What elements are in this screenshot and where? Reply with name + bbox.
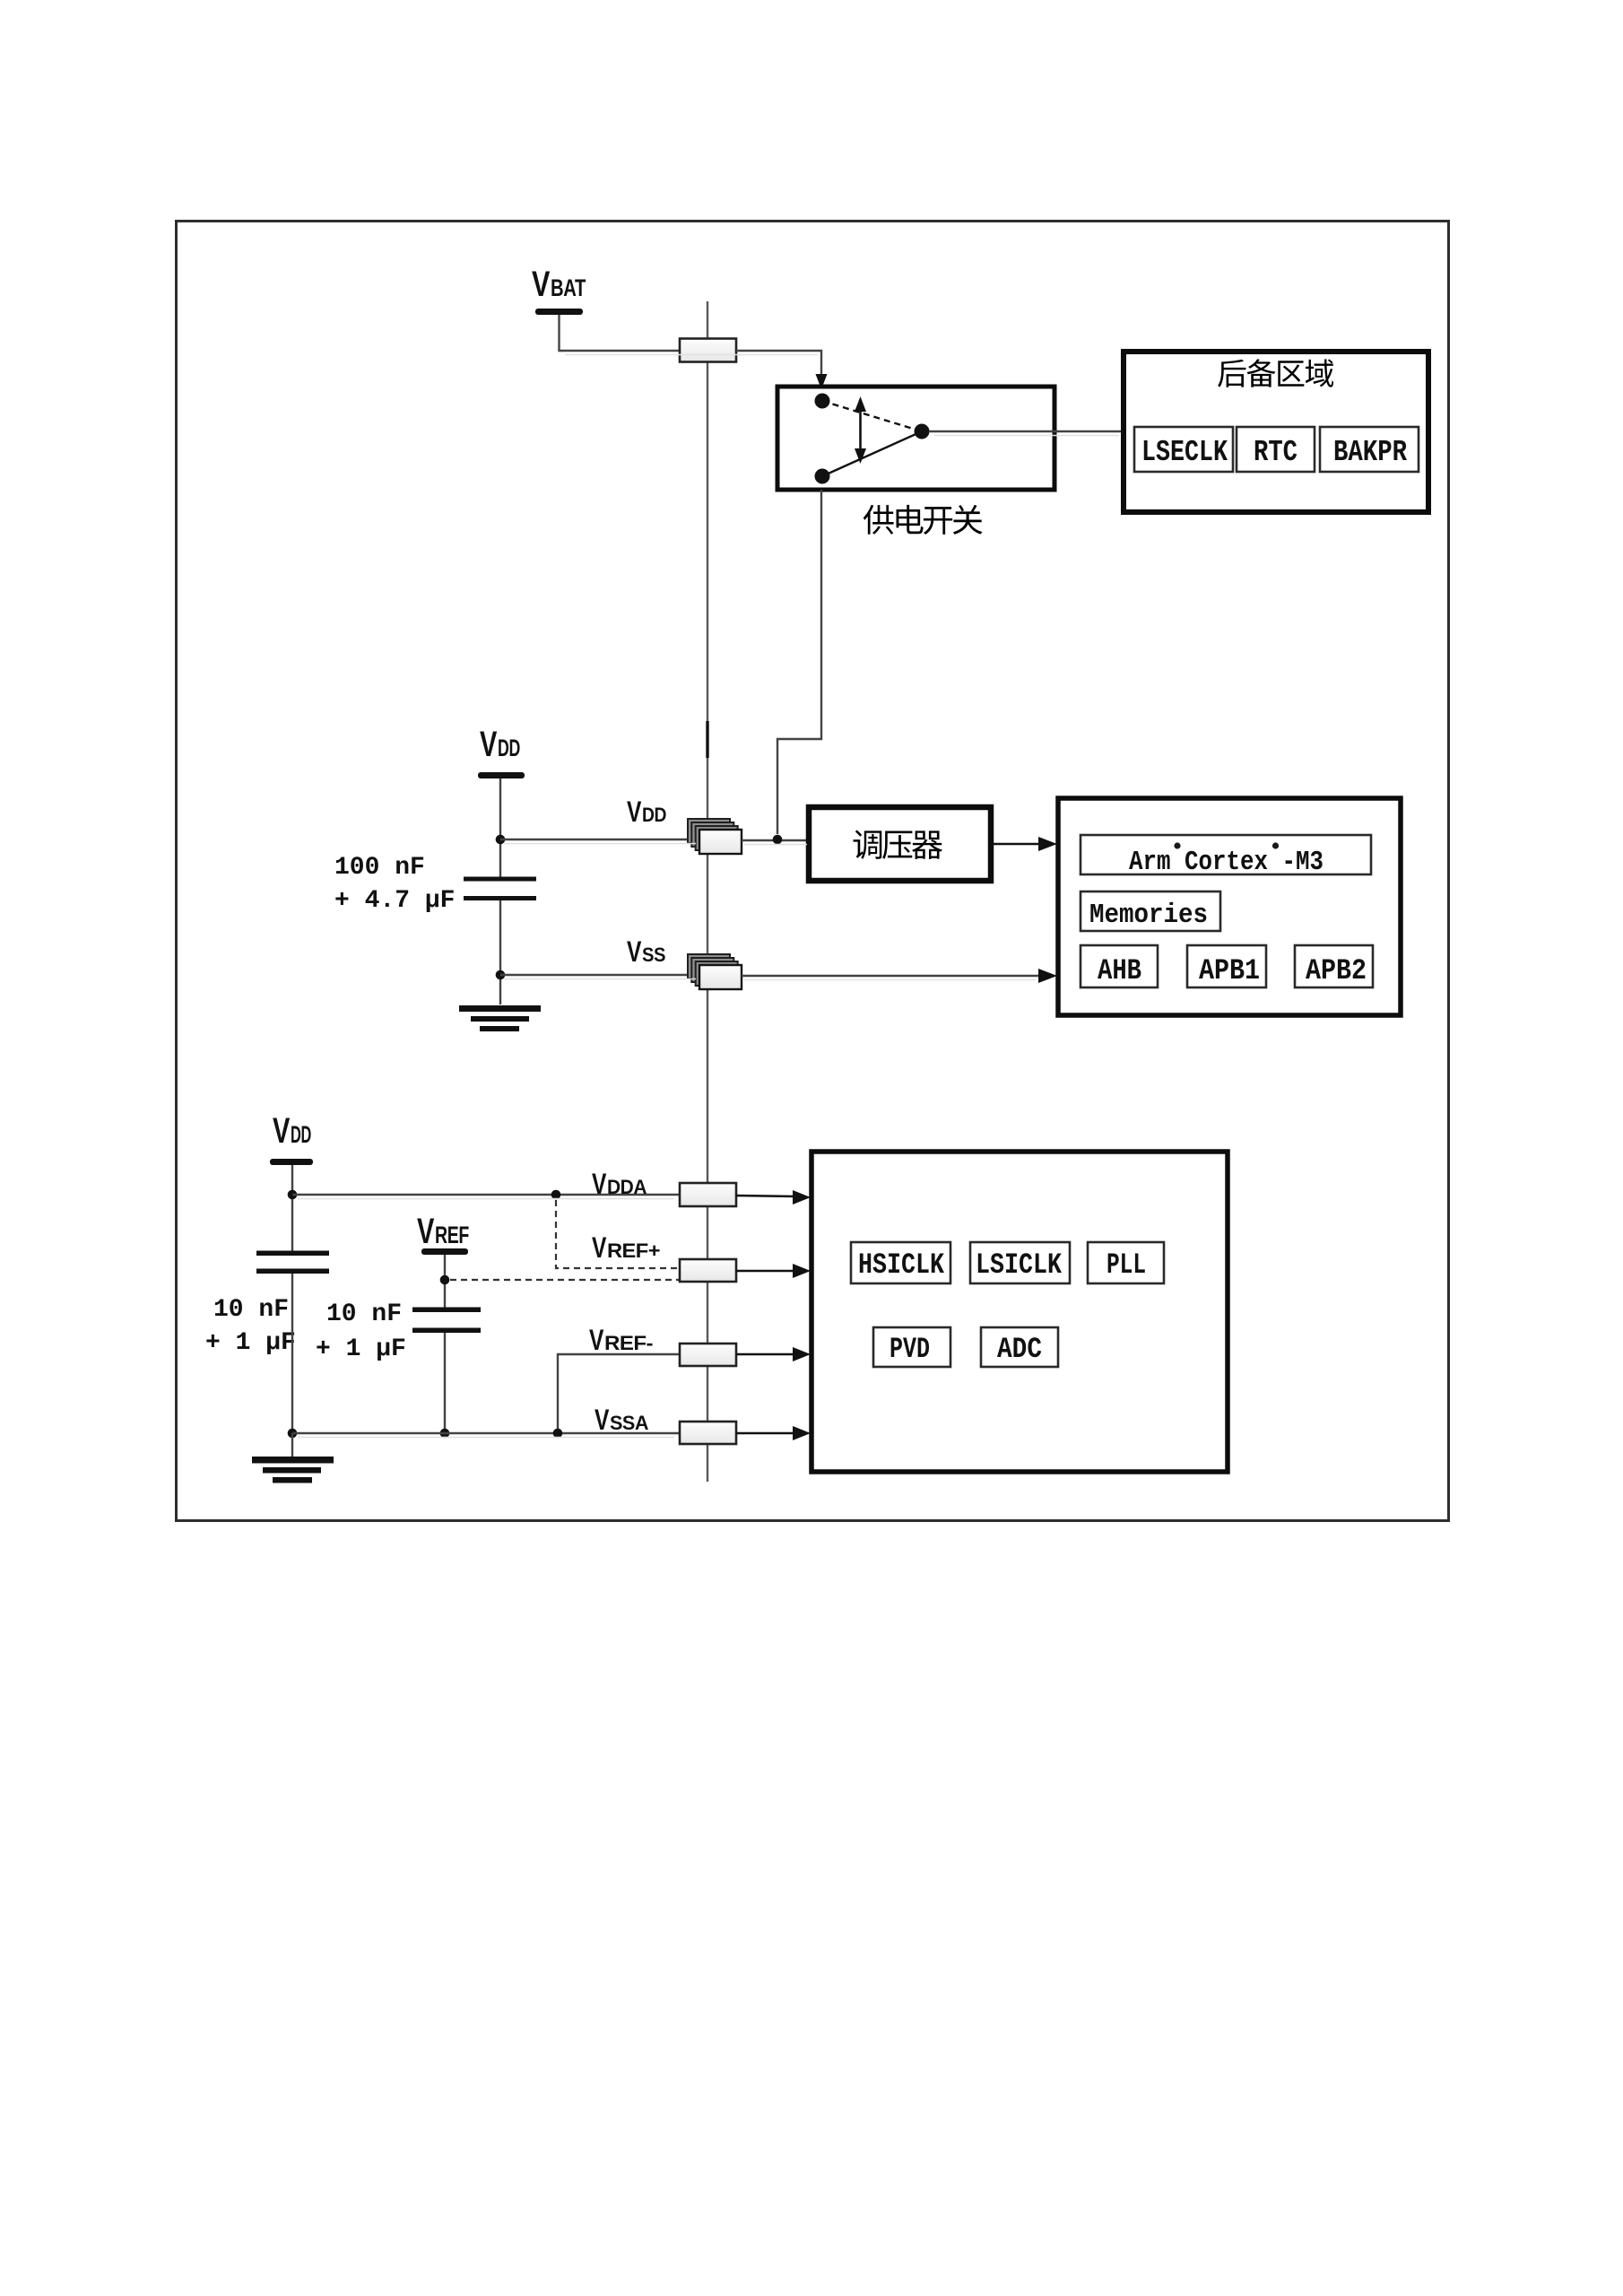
node VDD supply (lower left) [270, 1111, 313, 1165]
wire pin VBAT to power switch (arrow) [736, 351, 828, 389]
dashed wire VREF to VREF+ [450, 1279, 680, 1281]
wire C2 to VSSA net [291, 1274, 293, 1433]
svg-text:V: V [273, 1111, 291, 1151]
svg-text:+ 4.7 μF: + 4.7 μF [334, 887, 455, 915]
junction VSSA net left [288, 1429, 298, 1439]
label 后备区域 (backup domain) [1218, 359, 1333, 387]
block AHB [1081, 945, 1158, 987]
node VDD supply (upper left) [478, 725, 525, 778]
svg-text:V: V [627, 796, 642, 828]
svg-text:V: V [592, 1168, 607, 1200]
junction VREF tap [440, 1275, 450, 1285]
wire switch common to backup domain [929, 430, 1124, 432]
svg-text:REF+: REF+ [607, 1239, 660, 1262]
svg-text:V: V [480, 725, 498, 764]
analog peripherals box [811, 1152, 1228, 1472]
pin VBAT [680, 339, 736, 362]
svg-text:V: V [627, 935, 642, 968]
wire pin VDD to regulator [742, 839, 811, 841]
wire VSS to pin [500, 974, 699, 976]
svg-text:APB2: APB2 [1306, 954, 1367, 987]
svg-text:V: V [532, 265, 551, 304]
pin VDDA [680, 1183, 736, 1206]
wire pin VREF+ to analog box (arrow) [736, 1264, 811, 1278]
switch toggle double arrow [855, 396, 866, 464]
value label C3 [316, 1300, 406, 1363]
block Arm Cortex-M3 [1081, 835, 1371, 878]
svg-text:V: V [589, 1324, 604, 1356]
wire VREF- to VSSA net [558, 1354, 680, 1433]
label pin VREF+ [592, 1231, 660, 1264]
svg-text:10 nF: 10 nF [326, 1300, 402, 1328]
svg-text:V: V [417, 1212, 435, 1251]
wire VDD supply to VDDA net [291, 1165, 293, 1251]
power switch box [777, 387, 1055, 490]
switch contact node (bottom) [815, 469, 830, 484]
ground (under C1) [459, 1005, 541, 1031]
wire VSSA net [292, 1432, 680, 1434]
svg-text:DD: DD [498, 735, 520, 761]
switch common node (right) [915, 424, 930, 439]
switch solid throw (bottom to common) [822, 431, 922, 476]
block HSICLK [851, 1242, 950, 1283]
MCU digital box [1058, 798, 1401, 1015]
capacitor C3 10nF + 1uF [412, 1308, 481, 1334]
switch contact node (top) [815, 394, 830, 409]
svg-text:V: V [592, 1231, 607, 1264]
regulator box 调压器 [809, 807, 991, 881]
svg-text:V: V [595, 1404, 610, 1436]
block LSICLK [970, 1242, 1070, 1283]
wire regulator to MCU core (arrow) [991, 837, 1057, 851]
wire C3 to VSSA net [444, 1333, 446, 1433]
pin VREF- [680, 1344, 736, 1366]
svg-text:SS: SS [642, 944, 665, 966]
junction VDD net [496, 835, 506, 845]
label pin VSS [627, 935, 665, 968]
switch dashed throw (top to common) [822, 401, 922, 431]
wire overlap mark on VDD rail [706, 721, 708, 758]
wire switch output to VDD net (stepped) [777, 490, 821, 834]
wire VBAT to pin [560, 315, 681, 351]
svg-text:Arm Cortex -M3: Arm Cortex -M3 [1129, 847, 1324, 878]
svg-text:APB1: APB1 [1199, 954, 1260, 987]
wire VDD to pin [500, 839, 699, 840]
pin VREF+ [680, 1259, 736, 1282]
svg-text:PVD: PVD [890, 1333, 930, 1366]
backup domain box 后备区域 [1124, 352, 1428, 512]
junction VDDA net [288, 1190, 298, 1200]
wire shadow highlight [298, 355, 1119, 1438]
capacitor C1 100nF + 4.7uF [464, 877, 536, 901]
svg-text:DD: DD [642, 804, 666, 826]
svg-text:REF-: REF- [604, 1332, 653, 1354]
block PVD [873, 1327, 950, 1367]
block APB1 [1187, 945, 1266, 987]
wire VREF supply to cap [444, 1255, 446, 1308]
wire pin VDDA to analog box (arrow) [736, 1190, 811, 1205]
block Memories [1081, 891, 1220, 931]
svg-text:ADC: ADC [997, 1333, 1042, 1366]
svg-text:DDA: DDA [607, 1176, 647, 1198]
ground (under C2) [252, 1433, 334, 1483]
block BAKPR [1320, 427, 1419, 472]
wire VDD supply down to VDD net [499, 778, 501, 877]
junction VDDA/VREF+ dashed tap [551, 1190, 561, 1200]
svg-text:PLL: PLL [1107, 1248, 1146, 1282]
frame border [177, 222, 1449, 1521]
label pin VDD [627, 796, 666, 828]
svg-text:+ 1 μF: + 1 μF [205, 1329, 296, 1357]
node VBAT supply label [532, 265, 586, 315]
block RTC [1237, 427, 1315, 472]
label 供电开关 (power switch) [864, 505, 983, 535]
wire: central VDD rail (vertical) [707, 301, 708, 1482]
label pin VDDA [592, 1168, 647, 1200]
svg-text:RTC: RTC [1254, 436, 1298, 469]
svg-text:10 nF: 10 nF [213, 1296, 289, 1324]
wire pin VREF- to analog box (arrow) [736, 1347, 811, 1361]
label pin VREF- [589, 1324, 653, 1356]
pin VSS (stacked) [688, 954, 742, 989]
svg-text:100 nF: 100 nF [334, 854, 425, 882]
block PLL [1088, 1242, 1164, 1283]
junction VSSA/VREF cap [440, 1429, 450, 1439]
node VREF supply [417, 1212, 469, 1255]
block LSECLK [1134, 427, 1233, 472]
svg-text:BAKPR: BAKPR [1333, 436, 1407, 469]
capacitor C2 10nF + 1uF [256, 1251, 329, 1274]
pin VSSA [680, 1422, 736, 1444]
wire C1 to VSS net [499, 900, 501, 1004]
svg-text:LSECLK: LSECLK [1141, 436, 1228, 469]
junction VDD/regulator [773, 835, 783, 845]
wire pin VSSA to analog box (arrow) [736, 1426, 811, 1440]
junction VSSA/VREF- [553, 1429, 563, 1439]
svg-text:+ 1 μF: + 1 μF [316, 1335, 406, 1363]
block APB2 [1295, 945, 1373, 987]
svg-text:Memories: Memories [1089, 900, 1208, 931]
svg-text:DD: DD [291, 1121, 311, 1148]
pin VDD (stacked) [688, 819, 742, 854]
value label C2 [205, 1296, 296, 1357]
svg-text:REF: REF [435, 1222, 469, 1248]
label pin VSSA [595, 1404, 649, 1436]
label 调压器 (regulator) [854, 831, 942, 859]
junction VSS net [496, 970, 506, 980]
value label C1 [334, 854, 455, 915]
dashed wire VDDA tap to VREF+ [556, 1200, 680, 1268]
svg-text:BAT: BAT [551, 274, 586, 301]
svg-text:AHB: AHB [1098, 954, 1141, 987]
svg-text:SSA: SSA [610, 1412, 649, 1434]
block ADC [981, 1327, 1058, 1367]
svg-text:LSICLK: LSICLK [976, 1248, 1063, 1282]
svg-text:HSICLK: HSICLK [858, 1248, 945, 1282]
wire VDDA net [292, 1194, 680, 1196]
wire pin VSS to MCU (arrow) [742, 969, 1057, 983]
